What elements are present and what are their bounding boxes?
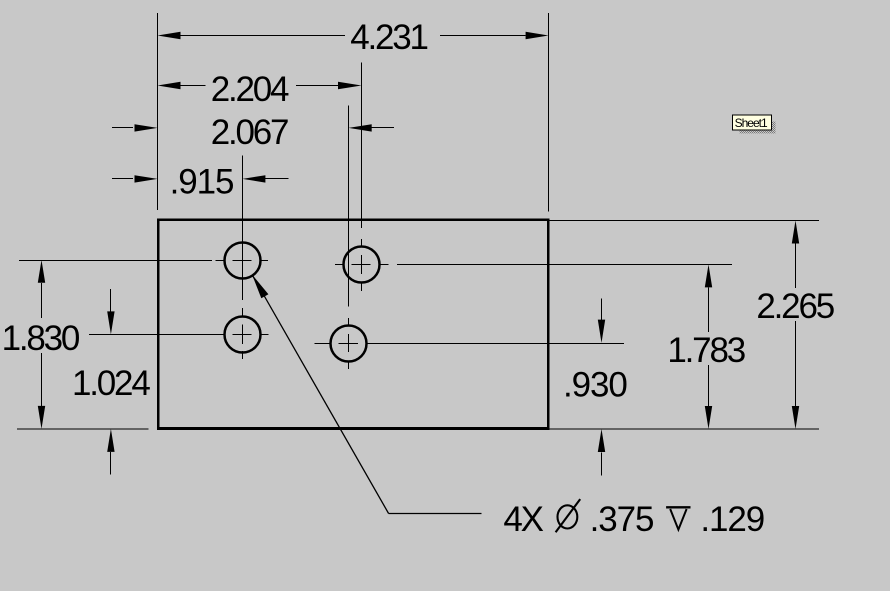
svg-text:4X: 4X — [503, 500, 543, 539]
svg-text:1.024: 1.024 — [72, 364, 150, 403]
svg-text:1.830: 1.830 — [2, 319, 80, 358]
svg-text:.375: .375 — [590, 500, 654, 539]
svg-text:Sheet1: Sheet1 — [735, 116, 768, 130]
svg-text:.930: .930 — [563, 366, 627, 405]
svg-text:1.783: 1.783 — [667, 331, 744, 370]
svg-text:2.204: 2.204 — [211, 70, 289, 109]
svg-text:2.067: 2.067 — [211, 113, 288, 152]
svg-text:.915: .915 — [170, 163, 234, 202]
svg-text:2.265: 2.265 — [756, 287, 833, 326]
svg-text:4.231: 4.231 — [350, 18, 427, 57]
svg-text:.129: .129 — [700, 500, 764, 539]
